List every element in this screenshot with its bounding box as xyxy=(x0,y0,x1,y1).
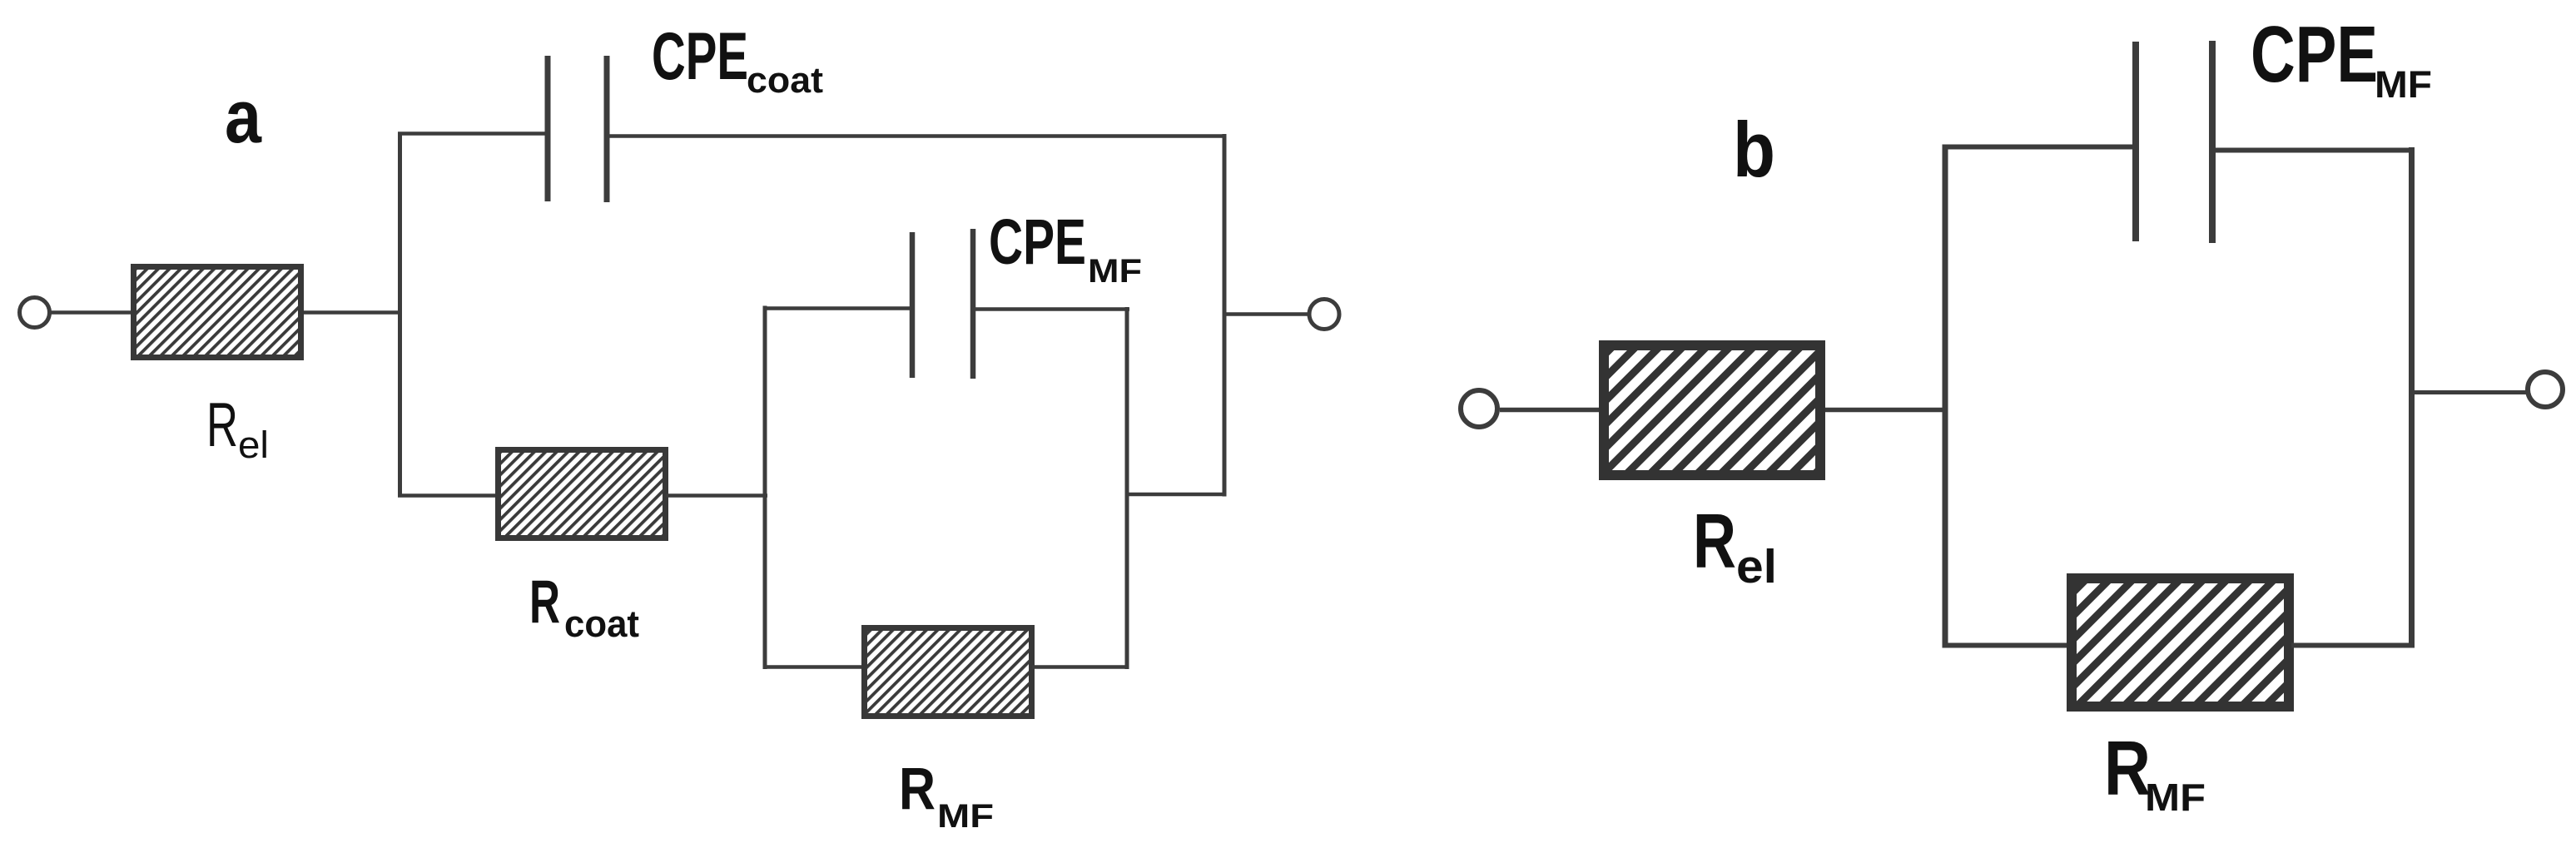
svg-text:MF: MF xyxy=(2375,63,2432,106)
svg-text:R: R xyxy=(529,568,560,636)
svg-text:R: R xyxy=(1693,498,1736,584)
svg-text:R: R xyxy=(899,756,936,822)
svg-text:CPE: CPE xyxy=(652,19,748,94)
svg-text:b: b xyxy=(1733,106,1775,193)
svg-text:CPE: CPE xyxy=(989,206,1086,278)
svg-text:coat: coat xyxy=(564,602,639,645)
svg-text:MF: MF xyxy=(2145,776,2206,819)
svg-text:el: el xyxy=(1736,540,1777,593)
svg-text:coat: coat xyxy=(747,60,823,101)
svg-text:MF: MF xyxy=(937,798,994,835)
svg-text:R: R xyxy=(2104,725,2151,811)
svg-text:el: el xyxy=(238,424,269,466)
svg-text:a: a xyxy=(225,76,262,159)
svg-text:CPE: CPE xyxy=(2251,10,2378,99)
svg-text:MF: MF xyxy=(1088,253,1142,290)
svg-text:R: R xyxy=(206,389,238,459)
